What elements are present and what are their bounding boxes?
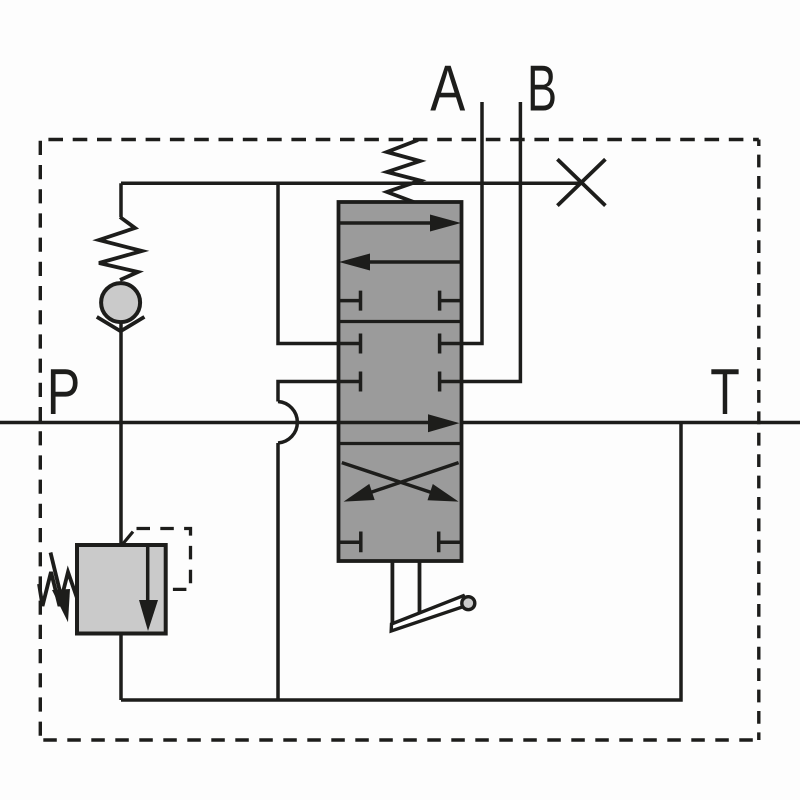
- svg-text:P: P: [47, 355, 81, 428]
- svg-text:B: B: [527, 51, 557, 124]
- svg-text:A: A: [430, 51, 466, 124]
- svg-text:T: T: [710, 355, 740, 428]
